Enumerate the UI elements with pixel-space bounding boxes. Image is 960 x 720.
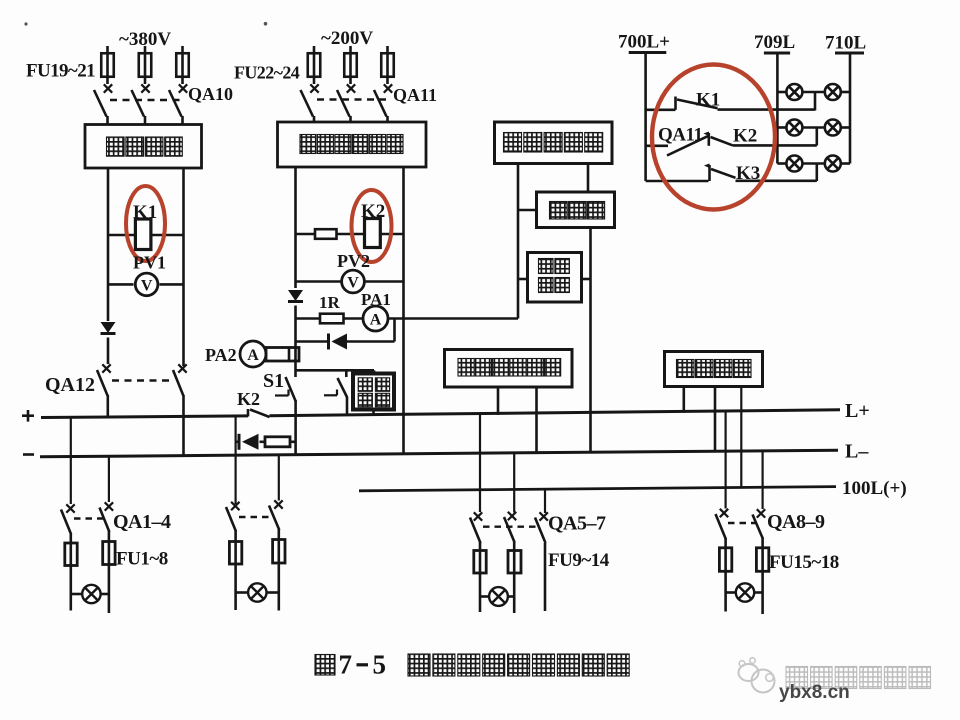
switch QA5-7 pole 2 — [504, 512, 516, 551]
plus sign — [22, 410, 34, 422]
text insulation-monitor (hanzi) — [458, 359, 561, 377]
wire PA1 to battery — [388, 317, 518, 320]
wire feeder3 drop3 — [544, 489, 546, 513]
svg-text:100L(+): 100L(+) — [842, 478, 907, 499]
wire lamp row3 — [777, 162, 850, 165]
voltmeter PV1 — [135, 273, 158, 296]
ammeter PA2 — [240, 341, 266, 367]
wire feeder3 drop1 — [479, 414, 481, 512]
wire feeder3 drop2 — [513, 454, 515, 513]
fuse FU24 — [381, 46, 394, 84]
svg-text:FU22~24: FU22~24 — [234, 63, 300, 83]
switch QA1-4 pole 2 — [100, 502, 114, 541]
svg-text:FU19~21: FU19~21 — [26, 61, 95, 82]
label PV2 — [337, 251, 370, 271]
switch QA12 pole 1 — [97, 364, 111, 418]
svg-text:FU1~8: FU1~8 — [116, 549, 168, 570]
switch on regulator feed — [324, 370, 347, 415]
label K2 — [361, 201, 385, 222]
wire feeder3 tails — [480, 543, 545, 613]
watermark url ybx8.cn — [779, 682, 850, 703]
svg-text:PV1: PV1 — [133, 253, 166, 273]
label QA10 — [188, 84, 233, 104]
svg-text:QA8–9: QA8–9 — [767, 511, 825, 533]
minus sign — [23, 453, 34, 456]
red highlight ellipse around K1/K2/K3 contacts — [652, 65, 775, 210]
fuse feeder3 left — [474, 551, 486, 597]
text discharge-device (hanzi) — [539, 259, 570, 274]
wire S1 feed row — [296, 370, 375, 374]
switch QA10 pole 1 — [94, 84, 112, 124]
resistor on K2 row — [315, 229, 337, 239]
lamp row3 left — [786, 156, 802, 172]
label 710L — [825, 33, 866, 54]
wire flash pin2 to L- — [714, 387, 717, 452]
wire lamp row1 — [777, 91, 850, 94]
wire feeder4 tails — [726, 593, 763, 615]
feeder2 linkage dashed — [239, 516, 274, 518]
svg-text:QA1–4: QA1–4 — [113, 511, 171, 533]
wire diode to QA12 — [107, 338, 110, 365]
QA5-7 linkage dashed — [483, 526, 538, 528]
diode bypass — [329, 334, 348, 350]
switch QA8-9 pole 1 — [716, 509, 729, 548]
label K1 contact — [696, 90, 720, 111]
svg-text:PA2: PA2 — [205, 345, 237, 365]
wire K1 coil row — [108, 234, 184, 237]
box flash-device — [665, 352, 763, 387]
svg-text:K2: K2 — [733, 126, 757, 147]
wire feeder4 right drop — [761, 451, 763, 509]
svg-text:S1: S1 — [263, 370, 284, 392]
box discharge-device — [528, 253, 582, 303]
svg-text:~200V: ~200V — [321, 28, 373, 49]
wire feeder1 tails — [71, 593, 109, 614]
switch QA8-9 pole 2 — [753, 509, 766, 548]
shunt for PA2 — [266, 348, 299, 362]
wire K2 coil row — [296, 233, 404, 236]
text closing-device (hanzi) — [107, 137, 183, 156]
text thyristor-charger (hanzi) — [300, 135, 403, 154]
fuse feeder4 left — [719, 548, 731, 593]
label PV1 — [133, 253, 166, 273]
label 100L(+) — [842, 478, 907, 499]
wire controller bottom to L- bus — [589, 228, 592, 453]
label L- — [845, 441, 869, 463]
wire bypass up to PA1 row — [393, 319, 396, 342]
text controller (hanzi) — [550, 202, 605, 220]
svg-text:7: 7 — [339, 650, 353, 680]
svg-text:PV2: PV2 — [337, 251, 370, 271]
wire below diode — [294, 306, 297, 378]
switch QA10 pole 2 — [132, 84, 150, 124]
box voltage-regulator — [353, 374, 394, 410]
text voltage-regulator row2 (hanzi) — [358, 393, 389, 407]
svg-text:QA5–7: QA5–7 — [548, 513, 606, 535]
switch QA5-7 pole 1 — [470, 512, 482, 550]
voltmeter PV2 — [342, 270, 365, 293]
contact K3 — [646, 164, 817, 182]
svg-text:L+: L+ — [845, 400, 870, 422]
wire discharge left pin — [518, 278, 528, 281]
svg-text:ybx8.cn: ybx8.cn — [779, 682, 850, 703]
label QA8-9 — [767, 511, 825, 533]
svg-text:FU9~14: FU9~14 — [548, 550, 610, 571]
label PA1 — [361, 290, 391, 309]
svg-text:QA12: QA12 — [45, 374, 95, 396]
QA10 linkage dashed line — [110, 99, 181, 101]
fuse feeder1 right — [103, 542, 115, 593]
lamp row1 left — [786, 84, 802, 100]
lamp feeder4 — [726, 583, 763, 601]
switch QA11 pole 3 — [374, 84, 392, 122]
lamp row1 right — [825, 84, 841, 100]
svg-text:A: A — [247, 347, 259, 364]
switch QA12 pole 2 — [173, 364, 187, 456]
box insulation-monitor — [445, 350, 573, 388]
wire battery right pin — [587, 164, 590, 193]
label FU22~24 — [234, 63, 300, 83]
wire feeder2 left drop — [235, 417, 237, 504]
label FU15~18 — [769, 552, 839, 573]
wire monitor pin1 to L+ — [497, 387, 500, 415]
svg-text:V: V — [347, 275, 359, 292]
bus L- (negative) — [40, 450, 838, 457]
svg-text:K2: K2 — [237, 389, 260, 409]
fuse FU19 — [101, 46, 114, 84]
lamp feeder1 — [71, 585, 109, 603]
lamp feeder3 — [480, 587, 514, 606]
text battery-pack (hanzi) — [504, 133, 603, 153]
label K1 — [133, 202, 157, 223]
text discharge-device row2 (hanzi) — [539, 278, 570, 293]
contact K2 lamp row — [711, 137, 817, 145]
wire row2 junction drop — [815, 128, 818, 146]
label K3 contact — [736, 163, 760, 184]
red highlight ellipse around K2 — [352, 190, 392, 262]
switch QA11 pole 2 — [337, 84, 355, 122]
wire charger right output — [402, 167, 405, 455]
box closing-device — [85, 125, 202, 169]
switch QA5-7 pole 3 — [535, 512, 548, 543]
fuse feeder4 right — [756, 548, 768, 593]
wire bypass diode row — [296, 340, 395, 343]
red highlight ellipse around K1 — [126, 186, 165, 261]
label FU9~14 — [548, 550, 610, 571]
QA11 linkage dashed line — [317, 98, 386, 100]
label QA12 — [45, 374, 95, 396]
wire regulator to bus — [372, 410, 375, 417]
wire 700L+ vertical — [644, 53, 647, 182]
switch feeder2 pole 1 — [226, 502, 240, 542]
fuse feeder1 left — [65, 543, 77, 594]
caption 7-5 — [339, 650, 387, 680]
svg-text:QA10: QA10 — [188, 84, 233, 104]
wire feeder1 left drop — [70, 417, 72, 504]
QA8-9 linkage dashed — [728, 522, 757, 524]
bus 100L(+) — [359, 487, 836, 491]
fuse FU20 — [139, 46, 152, 84]
box battery-pack — [495, 122, 613, 164]
contact K2 on bus — [248, 409, 270, 417]
wire 1R row — [296, 317, 364, 320]
fuse FU21 — [176, 46, 189, 84]
resistor 1R — [320, 314, 344, 324]
svg-text:L–: L– — [845, 441, 869, 463]
watermark logo — [739, 658, 775, 693]
text flash-device (hanzi) — [677, 360, 752, 378]
relay coil K2 — [365, 219, 381, 248]
switch QA10 pole 3 — [169, 84, 187, 124]
node 700L+ tick — [629, 51, 667, 54]
label ~200V — [321, 28, 373, 49]
wire S1 to bus — [294, 400, 297, 456]
label 700L+ — [618, 32, 670, 53]
label 1R — [319, 293, 341, 312]
wire flash pin3 to 100L — [740, 387, 742, 489]
diode on closing-device left leg — [101, 322, 116, 334]
wire feeder1 right drop — [108, 456, 110, 502]
svg-text:QA11: QA11 — [393, 85, 437, 105]
watermark site name (hanzi, gray) — [786, 667, 931, 689]
box controller — [537, 192, 615, 228]
text voltage-regulator (hanzi) — [358, 378, 389, 392]
fuse feeder2 right — [273, 540, 285, 593]
wire charger left output — [294, 167, 297, 288]
caption figure number (hanzi tu) — [315, 655, 335, 676]
wire monitor pin2 to L- — [535, 387, 538, 454]
lamp row2 left — [786, 120, 802, 136]
svg-text:V: V — [141, 278, 153, 295]
wire feeder4 left drop — [724, 411, 726, 508]
label ~380V — [119, 29, 171, 50]
label S1 — [263, 370, 284, 392]
scan speck — [24, 22, 27, 25]
label QA11 contact — [658, 125, 702, 146]
wire PV2 row — [296, 280, 404, 283]
svg-text:A: A — [370, 312, 382, 329]
lamp row3 right — [825, 156, 841, 172]
lamp row2 right — [825, 120, 841, 136]
svg-text:1R: 1R — [319, 293, 341, 312]
wire controller left pin — [518, 209, 537, 212]
diode on charger left leg — [288, 290, 303, 302]
label FU1~8 — [116, 549, 168, 570]
wire right output of closing device — [182, 168, 185, 366]
wire PV1 row — [108, 283, 184, 286]
switch QA1-4 pole 1 — [61, 504, 75, 543]
fuse feeder3 right — [508, 551, 521, 597]
wire row3 junction drop — [815, 164, 818, 182]
label QA1-4 — [113, 511, 171, 533]
wire discharge right pin — [582, 278, 591, 281]
label FU19~21 — [26, 61, 95, 82]
label K2 contact — [237, 389, 260, 409]
relay coil K1 — [135, 219, 151, 250]
node 710L tick — [835, 52, 864, 55]
QA12 linkage dashed line — [112, 379, 172, 381]
ammeter PA1 — [363, 306, 388, 331]
switch feeder2 pole 2 — [269, 500, 283, 539]
label 709L — [754, 32, 795, 53]
wire diode-resistor branch — [236, 440, 296, 443]
QA1-4 linkage dashed — [74, 517, 104, 519]
label PA2 — [205, 345, 237, 365]
bus L+ (positive) — [41, 410, 840, 418]
switch S1 — [275, 377, 296, 402]
wire left output of closing device — [107, 168, 110, 321]
lamp feeder2 — [236, 583, 279, 601]
label K2 contact lamp row — [733, 126, 757, 147]
wire row1 junction drop — [814, 92, 817, 111]
fuse FU23 — [344, 46, 357, 84]
contact QA11 auxiliary — [646, 132, 710, 156]
svg-text:709L: 709L — [754, 32, 795, 53]
wire lamp row2 — [777, 126, 850, 129]
caption title (hanzi) — [408, 654, 629, 676]
wire feeder2 right drop — [278, 456, 280, 501]
svg-text:710L: 710L — [825, 33, 866, 54]
svg-text:5: 5 — [373, 650, 387, 680]
wire flash pin1 to L+ — [682, 387, 685, 413]
box thyristor-charger — [278, 122, 427, 167]
scan speck 2 — [264, 22, 268, 26]
resistor in branch — [265, 437, 290, 447]
label L+ — [845, 400, 870, 422]
wire feeder2 tails — [236, 593, 279, 611]
node 709L tick — [764, 52, 790, 55]
wire 710L vertical — [849, 53, 852, 164]
label QA5-7 — [548, 513, 606, 535]
switch QA11 pole 1 — [301, 84, 319, 122]
label QA11 — [393, 85, 437, 105]
fuse FU22 — [308, 46, 321, 84]
diode in branch — [239, 434, 259, 450]
fuse feeder2 left — [229, 542, 241, 593]
wire battery left pin — [517, 164, 520, 319]
svg-text:700L+: 700L+ — [618, 32, 670, 53]
wire 709L vertical — [776, 53, 779, 164]
svg-text:FU15~18: FU15~18 — [769, 552, 839, 573]
contact K1 — [646, 97, 815, 110]
